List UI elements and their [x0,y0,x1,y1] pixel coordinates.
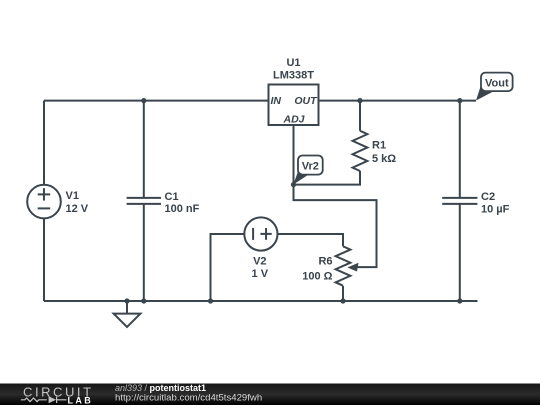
svg-text:100 nF: 100 nF [165,203,200,215]
svg-text:5 kΩ: 5 kΩ [372,153,396,165]
svg-text:10 µF: 10 µF [481,204,510,216]
svg-text:12 V: 12 V [66,203,89,215]
svg-text:OUT: OUT [294,95,318,107]
svg-text:C1: C1 [165,191,179,203]
svg-text:R1: R1 [372,140,386,152]
svg-text:V1: V1 [66,190,79,202]
svg-text:IN: IN [271,95,282,107]
svg-text:ADJ: ADJ [282,114,305,126]
svg-text:R6: R6 [318,256,332,268]
svg-text:LM338T: LM338T [273,70,314,82]
svg-text:100 Ω: 100 Ω [302,271,332,283]
svg-text:anl393 / potentiostat1: anl393 / potentiostat1 [115,383,206,393]
svg-text:C2: C2 [481,191,495,203]
svg-text:LAB: LAB [68,396,94,405]
svg-text:V2: V2 [253,256,266,268]
svg-text:U1: U1 [286,57,300,69]
svg-text:Vr2: Vr2 [302,161,319,173]
svg-text:1 V: 1 V [252,268,269,280]
svg-text:http://circuitlab.com/cd4t5ts4: http://circuitlab.com/cd4t5ts429fwh [115,392,262,403]
svg-text:Vout: Vout [485,78,509,90]
